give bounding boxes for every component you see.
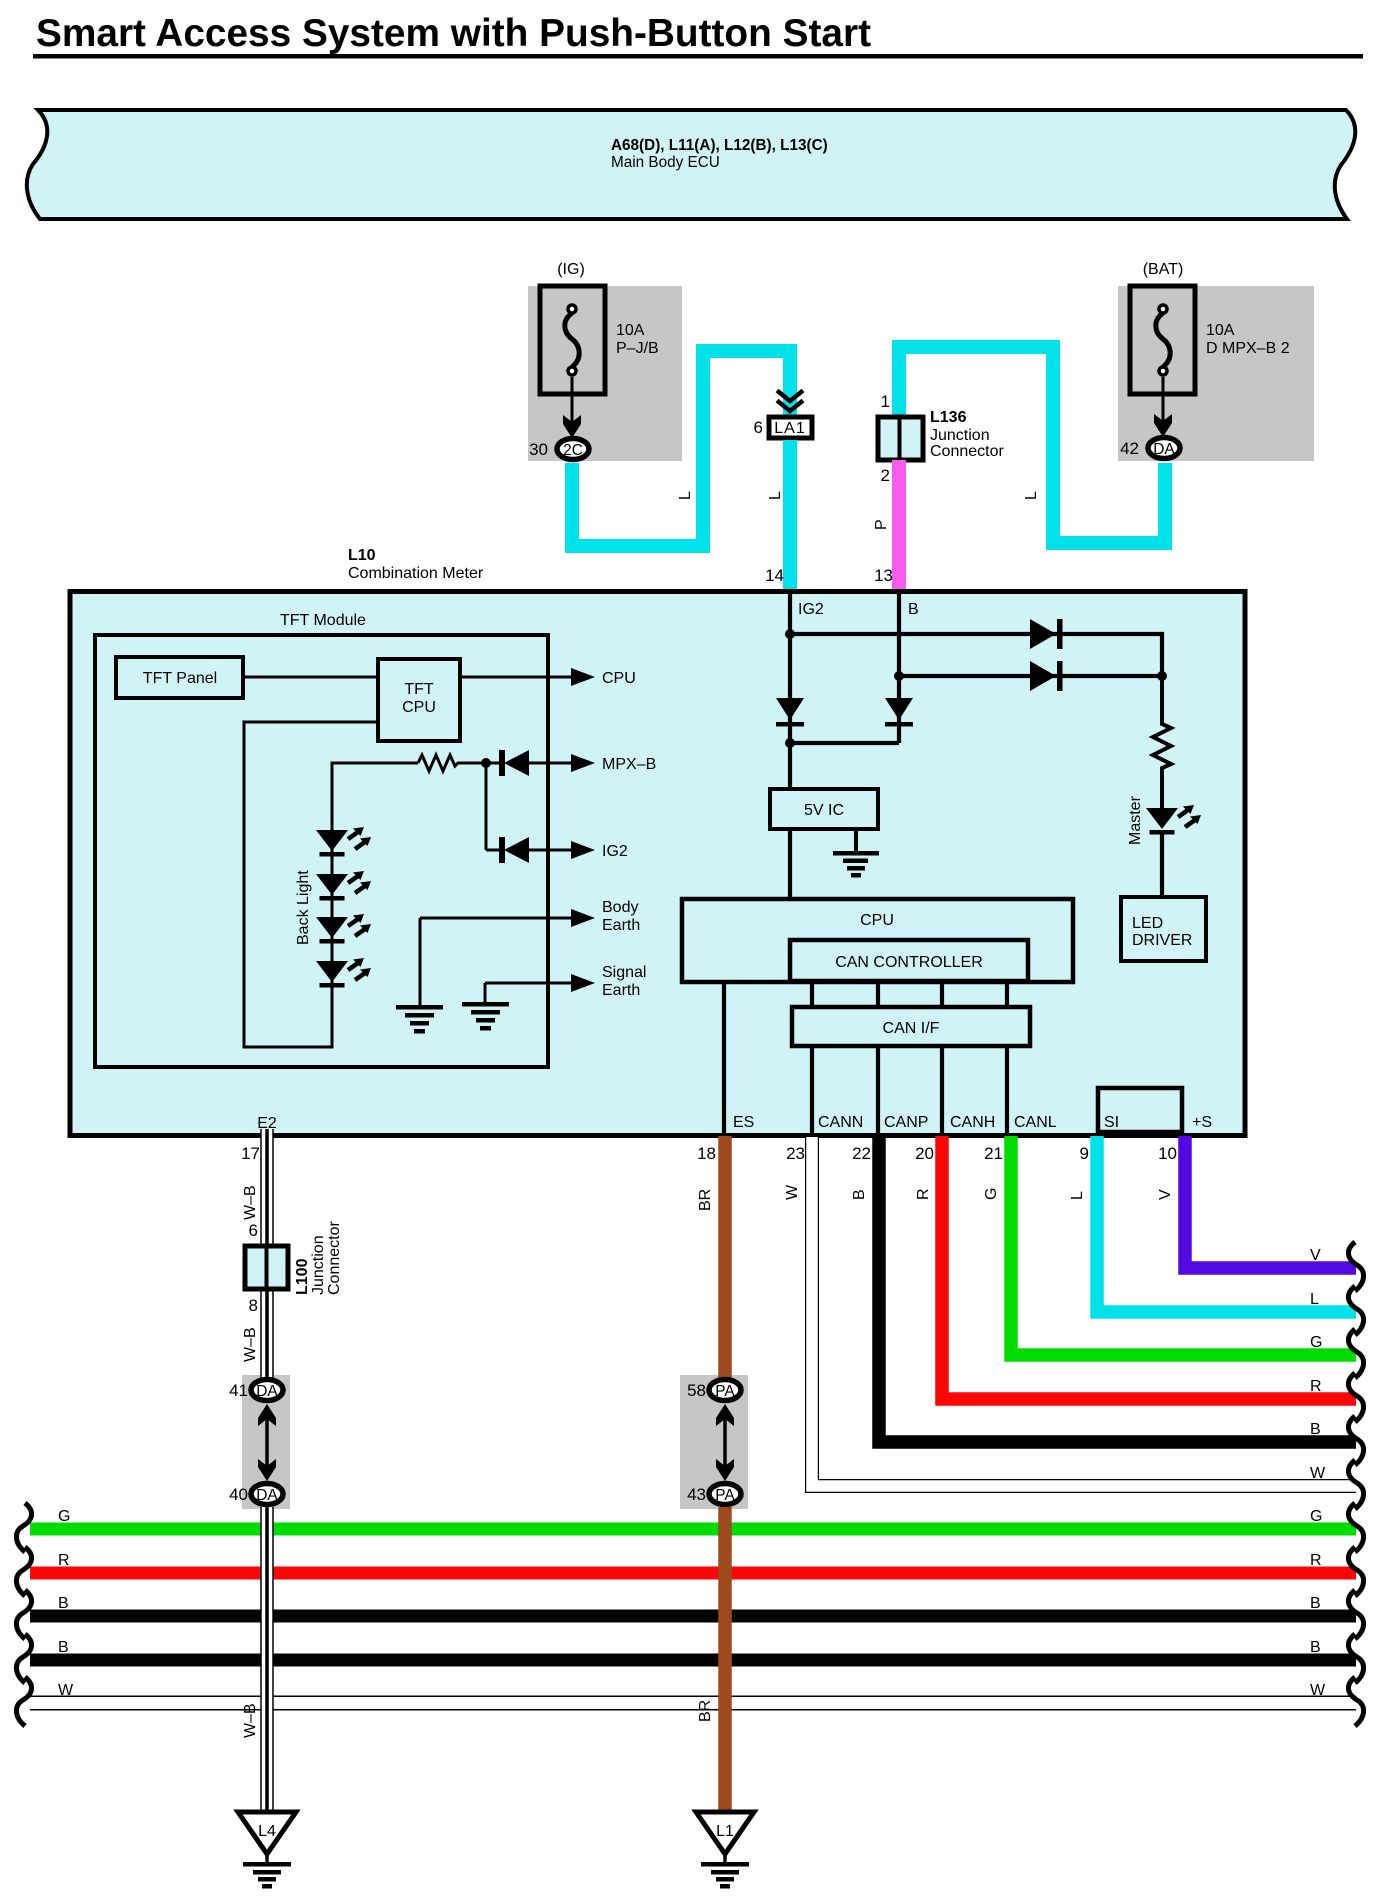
svg-text:V: V <box>1310 1247 1321 1264</box>
diode D3 on IG2 <box>776 698 804 727</box>
svg-text:TFT Panel: TFT Panel <box>143 670 217 687</box>
5V IC box <box>770 789 878 829</box>
svg-text:P: P <box>873 519 890 530</box>
TFT module box <box>95 612 548 1067</box>
terminal 30 2C <box>529 439 589 460</box>
wire ES <box>722 984 726 1136</box>
wire B pin 22 <box>851 1136 1356 1442</box>
signal earth wire <box>485 964 646 1002</box>
wire R pin 20 <box>915 1136 1356 1399</box>
terminal 58 PA <box>687 1380 741 1401</box>
svg-text:20: 20 <box>915 1144 934 1163</box>
arrow fuse to terminal 30 <box>563 377 581 438</box>
svg-text:D MPX–B 2: D MPX–B 2 <box>1206 340 1290 357</box>
node dot IG2 <box>785 629 795 639</box>
svg-text:MPX–B: MPX–B <box>602 756 656 773</box>
svg-text:W: W <box>58 1682 74 1699</box>
connector 6 LA1 <box>754 417 812 438</box>
pin labels bottom <box>257 1114 1212 1132</box>
svg-text:Smart Access System with Push-: Smart Access System with Push-Button Sta… <box>36 12 871 55</box>
svg-text:L1: L1 <box>716 1823 734 1840</box>
svg-text:+S: +S <box>1192 1114 1212 1131</box>
junction connector L100 <box>245 1221 343 1295</box>
fuse 10A D MPX-B 2 <box>1130 286 1290 394</box>
svg-text:CAN CONTROLLER: CAN CONTROLLER <box>835 954 983 971</box>
svg-text:G: G <box>983 1188 1000 1200</box>
svg-text:L136: L136 <box>930 409 967 426</box>
wire W pin 23 <box>784 1137 1356 1486</box>
svg-text:B: B <box>58 1639 69 1656</box>
svg-text:L: L <box>677 491 694 500</box>
resistor backlight <box>418 755 474 771</box>
svg-text:DA: DA <box>256 1383 278 1400</box>
svg-text:PA: PA <box>715 1383 735 1400</box>
svg-text:Earth: Earth <box>602 917 640 934</box>
TFT panel box <box>116 657 243 698</box>
svg-text:DRIVER: DRIVER <box>1132 932 1192 949</box>
diode D4 on B <box>885 698 913 727</box>
svg-text:13: 13 <box>874 566 893 585</box>
svg-text:1: 1 <box>881 392 890 411</box>
svg-text:23: 23 <box>786 1144 805 1163</box>
svg-text:G: G <box>1310 1508 1322 1525</box>
svg-text:10: 10 <box>1158 1144 1177 1163</box>
wire W-B lower to ground L4 <box>242 1507 267 1812</box>
ground 5V IC <box>833 831 879 878</box>
splice grey box DA <box>242 1375 290 1509</box>
svg-text:SI: SI <box>1104 1114 1119 1131</box>
diode D2 <box>1030 661 1063 691</box>
CPU box <box>682 899 1073 982</box>
svg-text:40: 40 <box>229 1485 248 1504</box>
wire TFT panel to TFT CPU <box>243 676 378 679</box>
terminal 42 DA <box>1120 438 1180 459</box>
svg-text:B: B <box>1310 1639 1321 1656</box>
wire B to right leg <box>899 674 1162 678</box>
title <box>33 12 1363 59</box>
splice grey box PA <box>680 1375 748 1509</box>
svg-text:41: 41 <box>229 1381 248 1400</box>
svg-text:Junction: Junction <box>930 427 990 444</box>
svg-text:DA: DA <box>256 1487 278 1504</box>
svg-text:2C: 2C <box>563 442 583 459</box>
svg-text:P–J/B: P–J/B <box>616 340 659 357</box>
LED master <box>1127 795 1201 845</box>
wire IG2 to right leg <box>790 634 1162 676</box>
right squiggles bus <box>1348 1503 1363 1726</box>
bus wire B 2 <box>30 1639 1356 1660</box>
svg-text:6: 6 <box>754 418 763 437</box>
CAN I/F box <box>792 1007 1030 1046</box>
svg-text:W: W <box>1310 1465 1326 1482</box>
svg-text:IG2: IG2 <box>798 601 824 618</box>
terminal 41 DA <box>229 1380 283 1401</box>
svg-text:Junction: Junction <box>310 1235 327 1295</box>
svg-text:CANH: CANH <box>950 1114 995 1131</box>
svg-text:W–B: W–B <box>242 1703 259 1738</box>
diode IG2 <box>486 837 529 863</box>
svg-text:W–B: W–B <box>242 1327 259 1362</box>
svg-text:R: R <box>915 1188 932 1200</box>
node dot B <box>894 671 904 681</box>
svg-text:(IG): (IG) <box>557 261 585 278</box>
terminal 40 DA <box>229 1484 283 1505</box>
svg-text:Main Body ECU: Main Body ECU <box>611 154 720 171</box>
svg-text:W: W <box>1310 1682 1326 1699</box>
svg-text:TFT: TFT <box>404 681 434 698</box>
svg-text:17: 17 <box>241 1144 260 1163</box>
ground signal earth <box>462 1002 509 1031</box>
svg-text:B: B <box>1310 1421 1321 1438</box>
wire L pin 9 <box>1069 1136 1356 1312</box>
svg-text:A68(D), L11(A), L12(B), L13(C): A68(D), L11(A), L12(B), L13(C) <box>611 137 828 154</box>
wire cyan L136 to 42 DA <box>899 347 1165 543</box>
svg-text:L: L <box>1069 1191 1086 1200</box>
right squiggles CAN wires <box>1348 1242 1363 1509</box>
svg-text:2: 2 <box>881 466 890 485</box>
arrow MPX-B <box>529 754 656 773</box>
svg-text:Body: Body <box>602 899 638 916</box>
svg-text:Back Light: Back Light <box>295 870 312 945</box>
ground L4 <box>238 1812 296 1889</box>
wire V pin 10 <box>1157 1136 1356 1268</box>
svg-text:Connector: Connector <box>930 443 1004 460</box>
svg-text:DA: DA <box>1153 441 1175 458</box>
svg-text:B: B <box>908 601 919 618</box>
wire LED to driver <box>1160 833 1164 895</box>
LED DRIVER box <box>1121 897 1206 961</box>
body earth wire <box>420 899 640 1005</box>
svg-text:Earth: Earth <box>602 982 640 999</box>
junction connector L136 <box>878 392 1004 485</box>
wire cyan 2C to LA1 <box>572 351 790 546</box>
arrow fuse to terminal 42 <box>1154 377 1172 437</box>
fuse 10A P-J/B <box>540 286 659 394</box>
svg-text:B: B <box>1310 1595 1321 1612</box>
ground L1 <box>696 1812 754 1889</box>
svg-text:L: L <box>1310 1291 1319 1308</box>
bus wire R <box>30 1552 1356 1573</box>
wire 5VIC to CPU <box>788 831 792 897</box>
fuse panel grey box (IG) <box>528 286 682 461</box>
svg-text:10A: 10A <box>616 322 645 339</box>
svg-text:V: V <box>1157 1189 1174 1200</box>
svg-text:22: 22 <box>852 1144 871 1163</box>
ground body earth <box>396 1005 443 1034</box>
svg-text:CANP: CANP <box>884 1114 928 1131</box>
svg-text:CANN: CANN <box>818 1114 863 1131</box>
svg-text:LA1: LA1 <box>774 420 805 437</box>
pin B entry line <box>899 589 919 743</box>
svg-text:21: 21 <box>984 1144 1003 1163</box>
diode MPX-B <box>499 750 529 776</box>
svg-text:Signal: Signal <box>602 964 646 981</box>
arrow IG2 <box>529 841 628 860</box>
fuse panel grey box (BAT) <box>1118 286 1314 461</box>
bus wire B 1 <box>30 1595 1356 1616</box>
combination meter block L10 <box>70 547 1245 1136</box>
backlight LED chain <box>316 827 371 988</box>
svg-text:ES: ES <box>733 1114 754 1131</box>
CAN CONTROLLER box <box>790 940 1028 981</box>
svg-text:CPU: CPU <box>860 912 894 929</box>
wire cyan LA1 to pin 14 <box>783 440 797 589</box>
resistor master <box>1153 676 1171 808</box>
svg-text:43: 43 <box>687 1485 706 1504</box>
wire G pin 21 <box>983 1136 1356 1355</box>
wires CAN controller to CAN I/F <box>812 980 1007 1007</box>
bus wire W <box>30 1682 1356 1703</box>
svg-text:R: R <box>1310 1378 1322 1395</box>
svg-text:14: 14 <box>765 566 784 585</box>
connector chevrons above LA1 <box>777 391 803 412</box>
svg-text:Connector: Connector <box>326 1221 343 1295</box>
svg-text:10A: 10A <box>1206 322 1235 339</box>
svg-text:L100: L100 <box>294 1258 311 1295</box>
svg-text:L: L <box>767 491 784 500</box>
diode D1 <box>1030 619 1063 649</box>
svg-text:G: G <box>58 1508 70 1525</box>
svg-text:CPU: CPU <box>602 670 636 687</box>
banner Main Body ECU <box>27 110 1355 219</box>
svg-text:CANL: CANL <box>1014 1114 1057 1131</box>
wire node to IG2 diode <box>485 763 488 850</box>
svg-text:G: G <box>1310 1334 1322 1351</box>
wire magenta pin 2 to pin 13 <box>873 460 899 589</box>
svg-text:TFT Module: TFT Module <box>280 612 366 629</box>
pin IG2 entry line <box>790 589 824 787</box>
double arrow PA pair <box>716 1404 734 1481</box>
svg-text:Master: Master <box>1127 795 1144 845</box>
svg-text:PA: PA <box>715 1487 735 1504</box>
wire resistor to MPX-B diode <box>458 762 504 765</box>
terminal 43 PA <box>687 1484 741 1505</box>
wire TFT CPU to CPU arrow <box>460 668 636 687</box>
svg-text:5V IC: 5V IC <box>804 802 844 819</box>
svg-text:B: B <box>851 1189 868 1200</box>
double arrow DA pair <box>258 1404 276 1481</box>
wire W-B pin 17 upper <box>241 1129 267 1378</box>
node dot right <box>1157 671 1167 681</box>
backlight loop wire <box>244 722 418 1047</box>
svg-text:LED: LED <box>1132 915 1163 932</box>
svg-text:9: 9 <box>1080 1144 1089 1163</box>
svg-text:L10: L10 <box>348 547 376 564</box>
svg-text:R: R <box>58 1552 70 1569</box>
svg-text:BR: BR <box>697 1700 714 1722</box>
svg-text:BR: BR <box>697 1189 714 1211</box>
TFT CPU box <box>378 659 460 741</box>
svg-text:B: B <box>58 1595 69 1612</box>
svg-text:6: 6 <box>249 1221 258 1240</box>
svg-text:L4: L4 <box>258 1823 276 1840</box>
svg-text:30: 30 <box>529 440 548 459</box>
svg-text:W: W <box>784 1184 801 1200</box>
svg-text:(BAT): (BAT) <box>1143 261 1184 278</box>
svg-text:W–B: W–B <box>242 1185 259 1220</box>
SI box <box>1098 1088 1182 1132</box>
svg-text:CAN I/F: CAN I/F <box>883 1020 940 1037</box>
svg-text:CPU: CPU <box>402 699 436 716</box>
svg-text:L: L <box>1023 491 1040 500</box>
svg-text:58: 58 <box>687 1381 706 1400</box>
node dot MPX-B <box>481 758 491 768</box>
wires CAN I/F to pins <box>812 1048 1007 1136</box>
svg-text:8: 8 <box>249 1296 258 1315</box>
svg-text:18: 18 <box>697 1144 716 1163</box>
wire BR pin 18 upper <box>697 1136 725 1378</box>
node join wire <box>785 738 899 748</box>
left squiggles bus <box>16 1503 31 1726</box>
svg-text:Combination Meter: Combination Meter <box>348 565 484 582</box>
svg-text:IG2: IG2 <box>602 843 628 860</box>
bus wire G left <box>30 1508 1356 1529</box>
svg-text:42: 42 <box>1120 439 1139 458</box>
svg-text:R: R <box>1310 1552 1322 1569</box>
wire BR lower to ground L1 <box>697 1507 725 1812</box>
